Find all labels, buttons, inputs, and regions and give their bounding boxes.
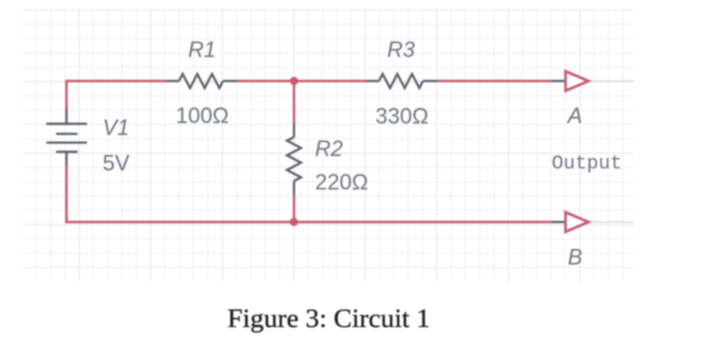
svg-text:R1: R1 bbox=[188, 37, 216, 62]
svg-text:R3: R3 bbox=[387, 37, 415, 62]
svg-text:V1: V1 bbox=[103, 115, 130, 140]
svg-text:220Ω: 220Ω bbox=[315, 169, 368, 194]
svg-text:Figure 3: Circuit 1: Figure 3: Circuit 1 bbox=[227, 303, 430, 333]
svg-text:B: B bbox=[568, 244, 583, 269]
svg-text:100Ω: 100Ω bbox=[176, 103, 229, 128]
svg-text:330Ω: 330Ω bbox=[375, 104, 428, 129]
svg-text:Output: Output bbox=[552, 152, 622, 174]
svg-text:5V: 5V bbox=[103, 150, 130, 175]
svg-text:R2: R2 bbox=[315, 136, 343, 161]
svg-text:A: A bbox=[566, 103, 583, 128]
